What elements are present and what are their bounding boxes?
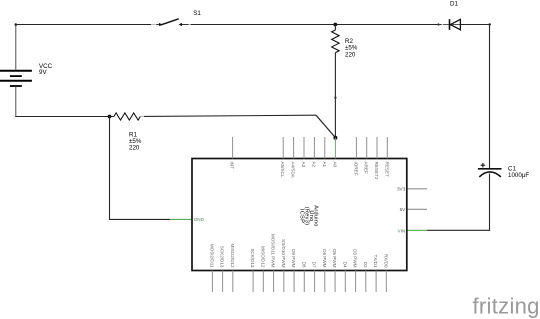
pin labels bottom — [209, 234, 388, 268]
svg-text:MISO2/D12: MISO2/D12 — [230, 244, 235, 268]
svg-text:A4/SDA: A4/SDA — [291, 162, 296, 179]
pin leg GND (connected) — [170, 218, 192, 220]
pin legs bottom — [212, 271, 386, 293]
wire top rail right segment — [461, 24, 490, 26]
svg-text:GND: GND — [194, 217, 205, 222]
svg-text:D9 PWM: D9 PWM — [291, 249, 296, 268]
svg-text:MOSI2/D11: MOSI2/D11 — [209, 244, 214, 268]
node top-left corner — [15, 23, 18, 26]
battery VCC 9V — [0, 71, 32, 86]
svg-text:D2: D2 — [363, 262, 368, 268]
node junction GND branch — [108, 115, 112, 119]
wire R1 to diagonal — [144, 115, 316, 116]
resistor R2 — [334, 25, 336, 31]
IC U1 Arduino Uno (Rev3) ICSP body — [192, 159, 407, 271]
pin legs top — [233, 137, 388, 159]
svg-text:A3: A3 — [301, 162, 306, 168]
label Arduino Uno (Rev3) ICSP — [299, 205, 319, 226]
wire GND branch vertical — [109, 117, 111, 220]
wire top rail middle segment — [191, 24, 443, 26]
pin leg VIN (connected) — [407, 229, 427, 231]
diode D1 — [450, 19, 461, 30]
wire bottom rail to junction — [15, 116, 109, 118]
svg-text:D4: D4 — [342, 262, 347, 268]
svg-text:TX/D1: TX/D1 — [373, 254, 378, 267]
svg-text:MISO/D12: MISO/D12 — [260, 246, 265, 268]
svg-text:RESET: RESET — [384, 162, 389, 178]
switch S1 left terminal leg — [151, 24, 156, 26]
wire diagonal to A0 node — [316, 115, 335, 137]
svg-text:INT: INT — [230, 162, 235, 170]
svg-text:1000µF: 1000µF — [508, 172, 529, 179]
wire right rail down to C1 — [489, 24, 491, 168]
svg-text:220: 220 — [129, 144, 140, 151]
svg-text:MOSI/D11 PWM: MOSI/D11 PWM — [271, 234, 276, 268]
wire C1 down to VIN rail — [489, 174, 491, 231]
svg-text:D6 PWM: D6 PWM — [322, 249, 327, 268]
svg-text:A0: A0 — [332, 162, 337, 168]
svg-text:D3 PWM: D3 PWM — [353, 249, 358, 268]
svg-text:SCK2/D13: SCK2/D13 — [220, 246, 225, 268]
svg-text:SS/D10 PWM: SS/D10 PWM — [281, 239, 286, 268]
wire top rail left segment — [15, 24, 151, 26]
svg-text:A5/SCL: A5/SCL — [280, 162, 285, 178]
node junction A0 — [333, 136, 337, 140]
svg-text:D7: D7 — [312, 262, 317, 268]
svg-text:D1: D1 — [450, 0, 458, 7]
wire GND branch horizontal — [110, 218, 171, 220]
svg-text:D5 PWM: D5 PWM — [332, 249, 337, 268]
svg-text:VIN: VIN — [398, 229, 406, 234]
svg-text:9V: 9V — [39, 69, 47, 76]
svg-text:D8: D8 — [301, 262, 306, 268]
svg-text:5V: 5V — [400, 207, 407, 212]
svg-text:IOREF: IOREF — [353, 162, 358, 176]
svg-text:fritzing: fritzing — [473, 294, 540, 319]
wire junction to R1 — [110, 116, 114, 118]
svg-text:RX/D0: RX/D0 — [383, 254, 388, 268]
pin leg A0 (connected) — [334, 138, 336, 159]
resistor R1 — [114, 113, 140, 120]
wire battery - down — [15, 87, 17, 118]
svg-text:AREF: AREF — [364, 162, 369, 174]
svg-text:S1: S1 — [193, 10, 201, 17]
svg-text:A1: A1 — [322, 162, 327, 168]
svg-text:A2: A2 — [311, 162, 316, 168]
wire top-left vertical (battery + to top rail) — [15, 25, 17, 70]
node bendpoint on R2 wire — [334, 97, 336, 99]
svg-text:SCK/D13: SCK/D13 — [250, 248, 255, 268]
svg-text:RESET2: RESET2 — [374, 162, 379, 180]
pin labels top — [230, 162, 390, 180]
diode D1 left terminal tick — [438, 23, 441, 26]
svg-text:3V3: 3V3 — [397, 187, 406, 192]
capacitor C1 — [478, 163, 502, 177]
svg-text:220: 220 — [345, 51, 356, 58]
wire VIN horizontal — [427, 229, 490, 231]
pin leg 3V3 — [407, 188, 427, 190]
wire R2 to A0 node — [334, 53, 336, 138]
pin leg 5V — [407, 208, 427, 210]
wire through diode — [443, 24, 461, 26]
node top-right corner — [489, 23, 491, 25]
node junction R2 / top rail — [333, 23, 337, 27]
svg-text:ICSP: ICSP — [299, 209, 305, 223]
switch S1 — [159, 19, 191, 26]
